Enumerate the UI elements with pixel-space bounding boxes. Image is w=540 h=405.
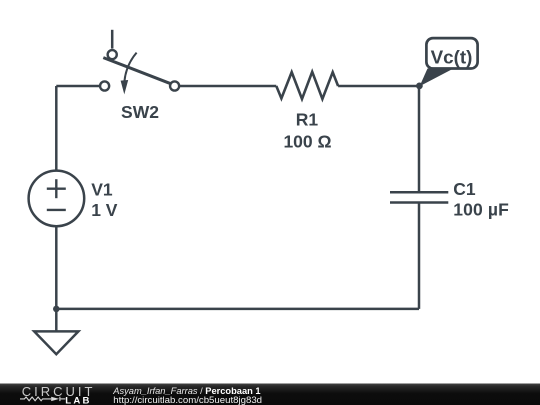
svg-text:Vc(t): Vc(t): [431, 47, 473, 68]
capacitor C1 top plate: [390, 191, 448, 194]
junction dot (ground node): [53, 306, 60, 313]
CircuitLab logo circuit glyph (resistor + diode): [20, 397, 65, 401]
wire: switch top stub: [111, 30, 114, 49]
switch SW2 terminal (top): [108, 50, 117, 59]
wire: top-left to switch: [56, 85, 100, 88]
switch SW2 actuation arrow: [124, 53, 136, 82]
wire: V1 top: [55, 86, 58, 171]
node label Vc(t) pointer: [420, 69, 454, 87]
wire: V1 bottom: [55, 226, 58, 309]
wire: node down to C1: [418, 86, 421, 192]
capacitor C1 bottom plate: [390, 201, 448, 204]
ground: [34, 331, 78, 354]
resistor R1: [276, 72, 338, 99]
wire: R1 to node: [338, 85, 419, 88]
svg-text:LAB: LAB: [65, 395, 91, 405]
wire: ground stub: [55, 309, 58, 332]
svg-text:http://circuitlab.com/cb5ueut8: http://circuitlab.com/cb5ueut8jg83d: [113, 395, 262, 405]
switch SW2 blade: [103, 58, 171, 84]
wire: bottom run: [56, 308, 419, 311]
switch SW2 terminal (right): [170, 81, 179, 90]
svg-text:C1: C1: [453, 179, 476, 199]
node label Vc(t) box: [426, 38, 477, 68]
svg-text:100 Ω: 100 Ω: [283, 132, 331, 152]
svg-text:100 µF: 100 µF: [453, 200, 509, 220]
wire: switch to R1: [179, 85, 276, 88]
svg-text:SW2: SW2: [121, 102, 159, 122]
voltage source V1: [29, 171, 85, 227]
svg-text:V1: V1: [91, 179, 113, 199]
node dot Vc(t): [416, 83, 423, 90]
svg-text:R1: R1: [296, 110, 319, 130]
wire: C1 to bottom run: [418, 203, 421, 309]
svg-text:1 V: 1 V: [91, 200, 118, 220]
switch SW2 terminal (left): [100, 81, 109, 90]
